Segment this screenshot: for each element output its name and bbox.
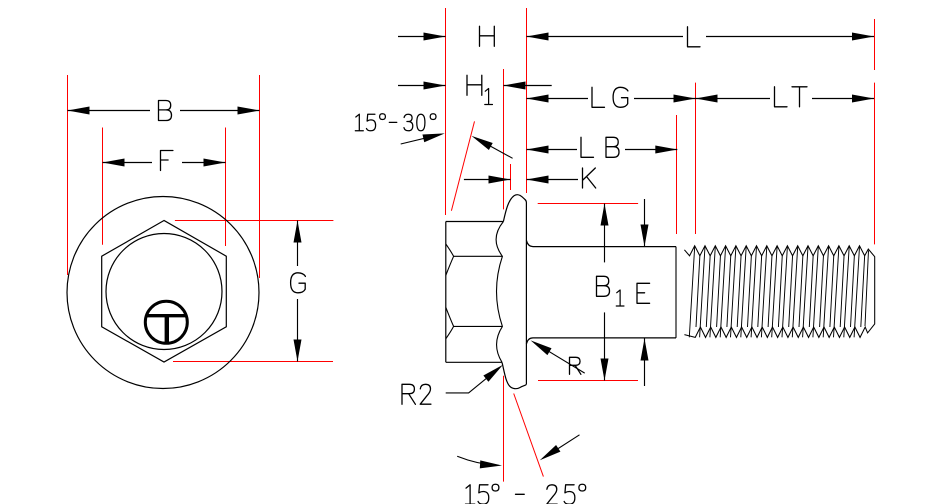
hex chamfer circle bbox=[106, 234, 222, 350]
facet corner arcs upper bbox=[446, 244, 454, 276]
label R2 bbox=[402, 384, 415, 404]
B dimension line bbox=[68, 110, 151, 112]
red extension line H1 right bbox=[503, 69, 505, 209]
label B1 bbox=[597, 276, 610, 296]
right leader bbox=[543, 435, 579, 458]
thread runout vertical bbox=[675, 247, 677, 338]
shank top line with fillet bbox=[526, 240, 676, 246]
facet corner arcs lower bbox=[446, 307, 454, 339]
R2 leader bbox=[446, 368, 499, 393]
left leader arc bbox=[457, 456, 498, 465]
thread crest outline bbox=[684, 246, 874, 338]
label LB bbox=[581, 137, 594, 157]
label B bbox=[159, 101, 172, 121]
label 15 - 25 bbox=[465, 485, 474, 504]
leader to head edge bbox=[401, 134, 441, 144]
red extension line K left bbox=[510, 164, 512, 190]
label LT bbox=[775, 87, 788, 107]
red extension line B right bbox=[259, 75, 261, 278]
head bottom edge bbox=[446, 361, 502, 363]
head top edge bbox=[446, 221, 504, 223]
flange bell top curve bbox=[503, 195, 526, 222]
R leader bbox=[535, 343, 584, 373]
head facet line upper bbox=[454, 255, 503, 257]
head facet line lower bbox=[454, 325, 503, 327]
red extension line B left bbox=[67, 75, 69, 275]
red extension line G bottom bbox=[173, 361, 333, 363]
thread flank lines bbox=[689, 246, 868, 337]
label R bbox=[570, 357, 581, 374]
label H1 bbox=[467, 75, 482, 95]
red extension line F left bbox=[102, 128, 104, 245]
F dimension line bbox=[103, 162, 153, 164]
label F bbox=[161, 151, 173, 171]
trademark circle on head bbox=[145, 301, 187, 343]
red extension line F right bbox=[225, 128, 227, 247]
flange outer circle bbox=[67, 197, 259, 389]
red extension line G top bbox=[175, 220, 334, 222]
label K bbox=[583, 168, 596, 188]
red extension line LG LT boundary bbox=[695, 83, 697, 234]
red extension line LB right at thread runout bbox=[676, 115, 678, 234]
red extension line LT right bbox=[874, 83, 876, 245]
G dimension line bbox=[297, 221, 299, 267]
label H bbox=[480, 26, 495, 46]
red extension line B1 top bbox=[538, 203, 638, 205]
head left face bbox=[445, 222, 447, 363]
red extension line flange face for H L LG K LB bbox=[526, 8, 528, 193]
trademark T stem bbox=[165, 316, 169, 343]
trademark T bar bbox=[146, 314, 186, 317]
leader to chamfer line bbox=[477, 139, 513, 159]
label E bbox=[637, 283, 650, 303]
label 15-30 bbox=[355, 114, 363, 131]
hex head outline bbox=[102, 221, 227, 363]
hex to flange silhouette arcs bbox=[496, 222, 503, 363]
label L bbox=[688, 27, 701, 47]
red extension line head left for H and H1 bbox=[445, 8, 447, 215]
label LG bbox=[592, 87, 605, 107]
red extension line 15-25 vertical bbox=[503, 376, 505, 482]
red angle line 15-25 bbox=[514, 394, 544, 477]
red extension line B1 bottom bbox=[538, 380, 638, 382]
flange face edge bbox=[525, 203, 527, 385]
shank bottom line with fillet bbox=[526, 338, 676, 344]
label G bbox=[291, 273, 306, 293]
red extension line L right upper bbox=[874, 19, 876, 70]
red chamfer angle line 15-30 bbox=[451, 121, 474, 210]
flange bell bottom curve bbox=[502, 362, 526, 388]
